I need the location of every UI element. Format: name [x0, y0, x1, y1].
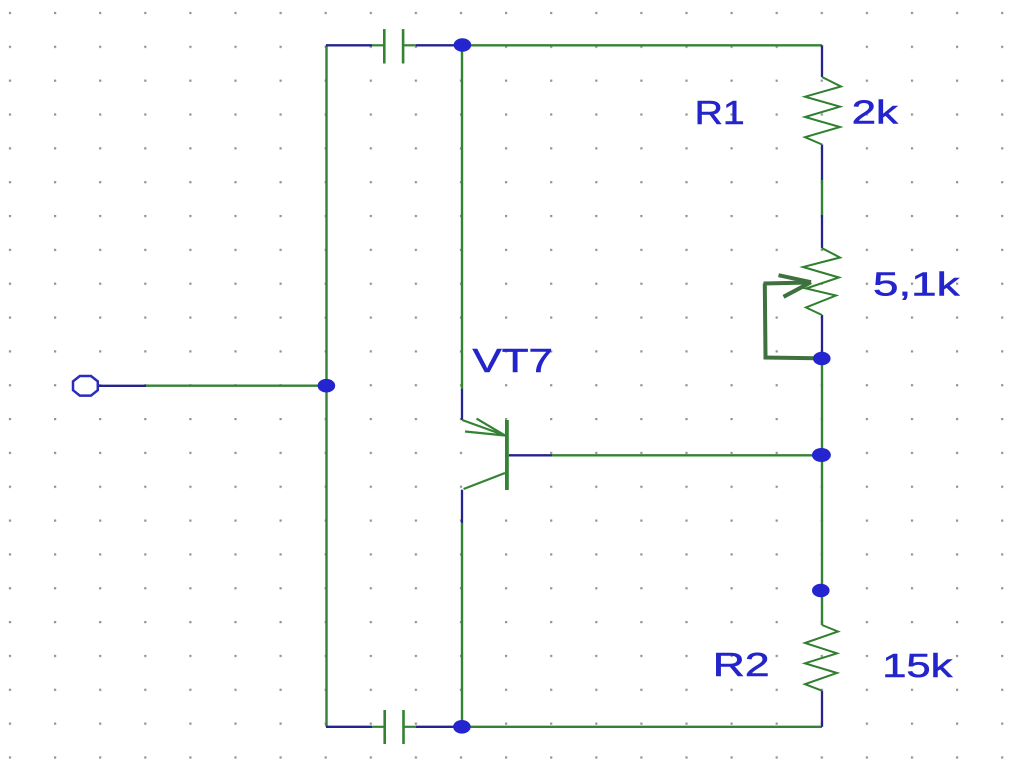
- svg-text:R2: R2: [713, 648, 770, 684]
- wire: input terminal stub blue: [98, 385, 146, 387]
- wire: VT7 collector lead blue: [461, 490, 463, 523]
- emitter arrow barb upper: [477, 419, 506, 436]
- potentiometer wiper arrow and tap wire: [764, 275, 817, 358]
- capacitor C2 (bottom): [372, 710, 416, 744]
- collector diagonal: [464, 473, 505, 489]
- emitter diagonal: [462, 420, 505, 436]
- capacitor C1 (top): [372, 29, 416, 63]
- wire: blue stub capacitor C1 to node A: [416, 44, 462, 46]
- svg-text:15k: 15k: [882, 648, 953, 685]
- wire: pot top lead blue: [821, 215, 823, 248]
- wire: blue stub capacitor C2 to bottom node: [416, 726, 462, 728]
- wire: R1 top lead blue: [821, 45, 823, 77]
- svg-text:5,1k: 5,1k: [873, 267, 960, 303]
- wire: input net green part: [146, 385, 326, 387]
- wire: middle vertical upper (top node to VT7 emitter): [461, 45, 463, 389]
- wire: top rail green (node A to R1 top corner): [462, 44, 822, 46]
- node input junction dot: [318, 379, 336, 393]
- potentiometer RP zigzag (5,1k): [803, 248, 840, 315]
- wire: blue stub bottom-left to capacitor C2: [326, 726, 372, 728]
- wire: pot bottom lead blue: [821, 315, 823, 359]
- node bottom junction dot: [453, 720, 471, 734]
- wire: left vertical bus: [325, 45, 327, 727]
- wire: bottom rail green: [462, 726, 822, 728]
- node base junction dot: [812, 448, 831, 462]
- wire: R1 bottom lead blue: [821, 145, 823, 181]
- node pot tap junction dot: [813, 352, 831, 366]
- transistor VT7: [462, 419, 507, 490]
- wire: right bus green from pot tap down through nodes to R2: [821, 359, 823, 626]
- resistor R1 zigzag: [805, 77, 841, 145]
- resistor R2 zigzag: [805, 625, 838, 691]
- emitter arrow barb lower: [465, 432, 505, 436]
- base bar: [505, 420, 509, 490]
- svg-text:R1: R1: [695, 94, 745, 131]
- svg-text:2k: 2k: [852, 95, 899, 132]
- wire: VT7 emitter lead blue: [461, 389, 463, 420]
- node R2 top junction dot: [812, 584, 830, 598]
- wire: middle vertical lower (VT7 collector to bottom node): [461, 523, 463, 727]
- input terminal circle: [73, 376, 98, 396]
- svg-text:VT7: VT7: [473, 343, 553, 380]
- wire: R2 bottom lead blue: [821, 691, 823, 727]
- wire: right bus green between R1 and pot: [821, 180, 823, 215]
- wire: base lead green part to right bus: [552, 454, 822, 456]
- wire: VT7 base lead blue: [509, 454, 552, 456]
- node A junction dot (top): [454, 38, 472, 52]
- wire: blue stub top-left to capacitor C1: [326, 44, 372, 46]
